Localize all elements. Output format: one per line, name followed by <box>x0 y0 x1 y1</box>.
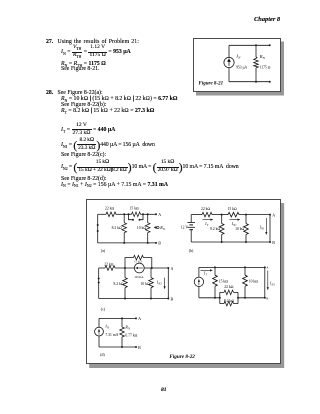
wire top mid2 (a) <box>141 213 157 215</box>
resistor RN zigzag <box>254 56 259 67</box>
resistor 10k vertical (c) <box>150 268 152 278</box>
svg-text:2: 2 <box>160 282 162 285</box>
source arrowhead (d) <box>98 329 100 332</box>
arrow IN2 line (c2) <box>267 271 269 288</box>
svg-text:(b): (b) <box>189 249 194 253</box>
stub terminal dots (a) <box>132 219 134 221</box>
wire left bottom (c2) <box>198 287 200 298</box>
svg-text:(c): (c) <box>101 308 106 312</box>
probe arrow RN (a) <box>154 226 157 229</box>
arrowhead IN2 (c) <box>164 286 166 289</box>
left edge source dots (a) <box>97 224 99 226</box>
svg-text:B: B <box>138 345 141 350</box>
parallel box bottom path with 8.2k (c2) <box>220 303 238 305</box>
svg-text:A: A <box>158 212 161 217</box>
svg-text:22 kΩ: 22 kΩ <box>201 207 210 211</box>
svg-text:B: B <box>171 296 174 301</box>
left edge source dots (c) <box>98 278 100 280</box>
wire left edge (c) <box>98 268 100 299</box>
terminal dot top <box>269 44 271 46</box>
wire left lower <box>228 67 230 81</box>
stub open left (a) <box>129 214 133 219</box>
arrowhead IN1 short (b) <box>265 232 267 235</box>
eq IN = VTH/RTH = 1.12V/1175 = 953 uA <box>61 45 131 57</box>
resistor 8.2k vertical (a) <box>123 214 125 222</box>
current arrow top (c2) <box>201 269 212 271</box>
wire left upper <box>228 45 230 57</box>
svg-text:10 kΩ: 10 kΩ <box>235 227 244 231</box>
current source arrow <box>228 59 230 66</box>
svg-text:(d): (d) <box>100 353 105 357</box>
resistor 15k on loop (c) <box>133 255 143 260</box>
terminal dots A B (c) <box>167 267 169 269</box>
node dots top wire (a) <box>123 213 125 215</box>
eq RN = 10k||(15k+8.2k||22k) = 6.77k <box>61 97 177 103</box>
source arrowhead up (c2) <box>198 279 200 282</box>
svg-text:10 kΩ: 10 kΩ <box>249 279 258 283</box>
header: Chapter 8 <box>254 17 280 23</box>
wire to source (c) <box>115 267 134 269</box>
current source IN circle <box>224 57 234 67</box>
corner dots A B (b) <box>269 214 271 216</box>
wire resistor top <box>255 45 257 57</box>
node dots (d) <box>121 317 123 319</box>
wire resistor bottom <box>255 67 257 81</box>
parallel box top path with 22k (c2) <box>220 291 238 293</box>
svg-text:(a): (a) <box>101 249 106 253</box>
node dots top (c2) <box>214 266 216 268</box>
wire bottom (a) <box>98 242 156 244</box>
wire left top (d) <box>98 318 100 327</box>
problem 27 number <box>46 40 53 46</box>
see figure 8-21 <box>61 67 99 73</box>
current source IN circle (d) <box>95 327 104 336</box>
problem 27 text <box>58 40 140 46</box>
svg-text:N: N <box>262 55 266 59</box>
resistor 10k vertical (a) <box>147 214 149 222</box>
node dots (b) <box>221 214 223 216</box>
eq IN1 <box>61 138 155 152</box>
svg-text:A: A <box>171 266 174 271</box>
eq IN2 <box>61 160 239 174</box>
page number 81 <box>161 388 167 394</box>
wire top (d) <box>99 317 136 319</box>
svg-text:Figure 8-21: Figure 8-21 <box>199 81 224 86</box>
wire top <box>229 44 270 46</box>
rail left (c2) <box>199 297 220 299</box>
svg-text:15 kΩ: 15 kΩ <box>228 207 237 211</box>
svg-text:10 kΩ: 10 kΩ <box>141 282 150 286</box>
wire bottom (b) <box>191 241 270 243</box>
svg-text:8.2 kΩ: 8.2 kΩ <box>113 282 123 286</box>
wire right edge (b) <box>269 215 271 242</box>
terminal dots (d) <box>135 317 137 319</box>
svg-text:A: A <box>266 266 269 270</box>
wire left edge (a) <box>97 214 99 243</box>
svg-text:N: N <box>162 227 166 231</box>
probe circle RN (a) <box>157 226 159 228</box>
resistor 15k vertical (c2) <box>214 267 216 275</box>
parallel box right side (c2) <box>237 292 239 303</box>
svg-text:10 mA: 10 mA <box>134 275 144 279</box>
stub open right (a) <box>140 214 143 219</box>
problem 28 number <box>46 91 53 97</box>
svg-text:10 kΩ: 10 kΩ <box>137 226 146 230</box>
svg-text:953 µA: 953 µA <box>236 65 247 69</box>
terminal dot bottom <box>269 80 271 82</box>
current source circle (c2) <box>194 277 203 286</box>
svg-text:6.77 kΩ: 6.77 kΩ <box>125 333 137 337</box>
node dots rail (c2) <box>214 297 216 299</box>
wire left top (c2) <box>198 267 200 277</box>
bypass loop 15k (c) <box>125 258 152 268</box>
svg-text:8.2 kΩ: 8.2 kΩ <box>112 226 122 230</box>
svg-text:N: N <box>106 326 109 329</box>
wire left bottom (b) <box>190 230 192 242</box>
svg-text:B: B <box>272 240 275 245</box>
node dot resistor top <box>255 44 257 46</box>
resistor 10k vertical (b) <box>245 215 247 224</box>
svg-text:T: T <box>207 224 209 227</box>
svg-text:8.2 kΩ: 8.2 kΩ <box>210 227 220 231</box>
svg-text:15 kΩ: 15 kΩ <box>134 259 143 263</box>
rail right (c2) <box>238 297 265 299</box>
svg-text:2: 2 <box>274 283 276 286</box>
svg-text:B: B <box>158 241 161 246</box>
svg-text:N: N <box>127 328 130 331</box>
short-circuit arrow IN1 (b) <box>265 218 267 233</box>
svg-text:A: A <box>272 212 275 217</box>
resistor 22k (c) <box>105 266 115 271</box>
svg-text:A: A <box>138 316 141 321</box>
source arrow left (c) <box>137 267 143 269</box>
resistor 15k (b) <box>228 212 239 217</box>
svg-text:T: T <box>205 274 207 277</box>
current source 10mA circle (c) <box>134 263 144 273</box>
svg-text:15 kΩ: 15 kΩ <box>219 279 228 283</box>
wire bottom (d) <box>99 346 136 348</box>
svg-text:8.2 kΩ: 8.2 kΩ <box>224 299 234 303</box>
arrowhead top current (c2) <box>210 269 213 271</box>
svg-text:B: B <box>266 296 268 300</box>
wire left bottom (d) <box>98 336 100 347</box>
wire left top (b) <box>190 215 192 223</box>
source arrowhead left (c) <box>135 267 138 269</box>
bottom dots (a) <box>123 242 125 244</box>
wire bottom (c) <box>99 298 169 300</box>
wire source to node2 (c) <box>144 267 152 269</box>
parallel box left side (c2) <box>219 292 221 303</box>
resistor 22k (a) <box>106 212 116 217</box>
terminal A dot (a) <box>155 213 157 215</box>
FIGURE 8-21 BOX <box>193 38 281 92</box>
terminal B dot (a) <box>155 242 157 244</box>
svg-text:12 V: 12 V <box>181 225 189 229</box>
wire top (c2) <box>199 266 265 268</box>
wire bottom <box>229 80 270 82</box>
current arrow IT (b) <box>203 219 212 221</box>
svg-text:22 kΩ: 22 kΩ <box>224 285 233 289</box>
wire top left (b) <box>191 214 202 216</box>
arrowhead IT (b) <box>211 219 214 221</box>
svg-text:N: N <box>237 55 241 59</box>
eq RT <box>61 109 154 115</box>
wire top mid (b) <box>212 214 228 216</box>
wire top left (a) <box>98 213 106 215</box>
svg-text:22 kΩ: 22 kΩ <box>105 207 114 211</box>
arrowhead IN2 (c2) <box>267 287 269 290</box>
node dot resistor bottom <box>255 80 257 82</box>
wire right edge (c2) <box>264 267 266 297</box>
source arrow up (d) <box>98 330 100 335</box>
svg-text:Figure 8-22: Figure 8-22 <box>169 354 195 360</box>
resistor 10k vertical (c2) <box>244 267 246 275</box>
resistor 8.2k vertical (c) <box>124 268 126 278</box>
svg-text:22 kΩ: 22 kΩ <box>104 262 113 266</box>
wire top right (b) <box>239 214 270 216</box>
short-circuit arrow IN2 (c) <box>164 278 166 287</box>
source arrow up (c2) <box>198 280 200 285</box>
svg-text:1175 Ω: 1175 Ω <box>260 65 271 69</box>
resistor RN vertical (d) <box>121 318 123 327</box>
eq RN = RTH = 1175 ohm <box>61 62 106 68</box>
svg-text:1: 1 <box>263 228 265 231</box>
wire right edge (c) <box>167 268 169 299</box>
FIGURE 8-22 BOX <box>86 199 281 364</box>
svg-text:15 kΩ: 15 kΩ <box>130 207 139 211</box>
current arrow IN1 top (b) <box>230 219 239 221</box>
svg-text:7.31 mA: 7.31 mA <box>105 333 118 337</box>
resistor 8.2k vertical (b) <box>221 215 223 224</box>
wire top left (c) <box>99 267 105 269</box>
eq IT = 12V/27.3k = 440uA <box>61 123 115 135</box>
resistor 22k (b) <box>202 212 212 217</box>
arrowhead IN1 top (b) <box>238 219 241 221</box>
resistor 15k (a) <box>132 212 141 217</box>
node dots (c) <box>124 267 126 269</box>
battery 12V plates (b) <box>187 222 195 224</box>
wire top mid1 (a) <box>116 213 132 215</box>
wire top right (c) <box>152 267 169 269</box>
